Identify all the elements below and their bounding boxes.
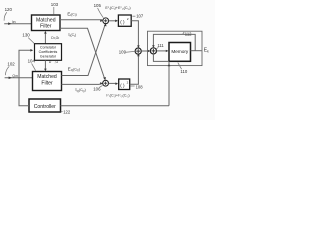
wire generator to MF1 <box>44 32 46 43</box>
svg-text:Controller: Controller <box>34 104 56 110</box>
svg-text:102: 102 <box>7 61 15 66</box>
svg-text:Correlator: Correlator <box>40 46 57 50</box>
svg-text:Ek: Ek <box>204 48 209 54</box>
svg-text:108: 108 <box>136 84 144 89</box>
svg-text:105: 105 <box>94 3 102 8</box>
wire feedback memory to adder111 (112) <box>153 34 195 50</box>
svg-text:103: 103 <box>51 2 59 7</box>
correlator coefficients generator 130 <box>35 44 62 61</box>
svg-text:E2I(CI)+E2Q(CQ): E2I(CI)+E2Q(CQ) <box>105 6 130 11</box>
squarer 107 <box>118 15 131 26</box>
matched filter 103 (top) <box>32 15 61 31</box>
wire adder109 to adder 111 <box>141 50 149 52</box>
svg-text:Memory: Memory <box>171 49 189 54</box>
adder 111 <box>150 48 156 54</box>
wire MF2 upper output EQ (diagonal to adder 105) <box>62 24 106 75</box>
wire controller to generator <box>19 50 32 105</box>
svg-text:Dı,Gı: Dı,Gı <box>51 36 59 40</box>
svg-text:( ): ( ) <box>120 19 125 24</box>
wire MF1 upper output EI <box>60 19 102 21</box>
svg-text:104: 104 <box>28 59 36 64</box>
svg-text:Filter: Filter <box>40 24 52 30</box>
wire controller bottom rail <box>61 105 170 107</box>
wire MF2 lower output IQ <box>62 83 103 84</box>
svg-text:109: 109 <box>119 49 127 54</box>
adder 105 <box>103 18 109 24</box>
wire adder111 bottom to memory bottom <box>153 54 169 61</box>
svg-text:120: 120 <box>5 7 13 12</box>
wire adder106 to squarer 108 <box>109 82 118 84</box>
svg-text:Matched: Matched <box>37 74 57 80</box>
svg-text:I2I(CI)+I2Q(CQ): I2I(CI)+I2Q(CQ) <box>106 93 129 98</box>
dashed-accumulator block outline 110s <box>148 31 203 65</box>
svg-text:Generator: Generator <box>40 54 57 58</box>
svg-text:Iın: Iın <box>12 20 16 24</box>
matched filter 104 (bottom) <box>33 72 62 91</box>
svg-text:107: 107 <box>136 13 144 18</box>
svg-text:EQ(CQ): EQ(CQ) <box>68 66 80 72</box>
svg-text:IQ(CQ): IQ(CQ) <box>75 87 85 93</box>
wire squarer108 to adder 109 <box>130 55 139 85</box>
squarer 108 <box>119 79 130 90</box>
svg-text:122: 122 <box>63 109 71 114</box>
svg-text:111: 111 <box>157 43 164 48</box>
svg-text:112: 112 <box>185 32 192 37</box>
adder 106 <box>103 80 109 86</box>
controller 122 <box>29 99 61 112</box>
wire controller riser to memory <box>168 62 170 106</box>
adder 109 <box>135 48 141 54</box>
memory 110 <box>169 43 191 62</box>
svg-text:Qın: Qın <box>12 74 18 78</box>
svg-text:II(CI): II(CI) <box>68 32 76 38</box>
wire memory output Ek <box>191 50 202 52</box>
svg-text:130: 130 <box>22 33 30 38</box>
wire input I to MF1 <box>4 23 31 25</box>
wire generator to MF2 <box>44 60 46 70</box>
svg-text:Dﾠ,Gﾠ: Dﾠ,Gﾠ <box>49 60 62 64</box>
svg-text:( ): ( ) <box>120 83 125 88</box>
wire MF1 lower output II (diagonal to adder 106) <box>60 28 105 78</box>
svg-text:110: 110 <box>180 69 187 74</box>
wire adder105 to squarer 107 <box>109 20 118 22</box>
svg-text:EI(CI): EI(CI) <box>67 11 76 17</box>
svg-text:Coefficients: Coefficients <box>39 50 58 54</box>
wire input Q to MF2 <box>5 77 33 79</box>
wire adder111 to memory <box>157 50 168 52</box>
svg-text:Filter: Filter <box>41 81 53 87</box>
wire squarer107 to adder 109 <box>131 21 138 47</box>
